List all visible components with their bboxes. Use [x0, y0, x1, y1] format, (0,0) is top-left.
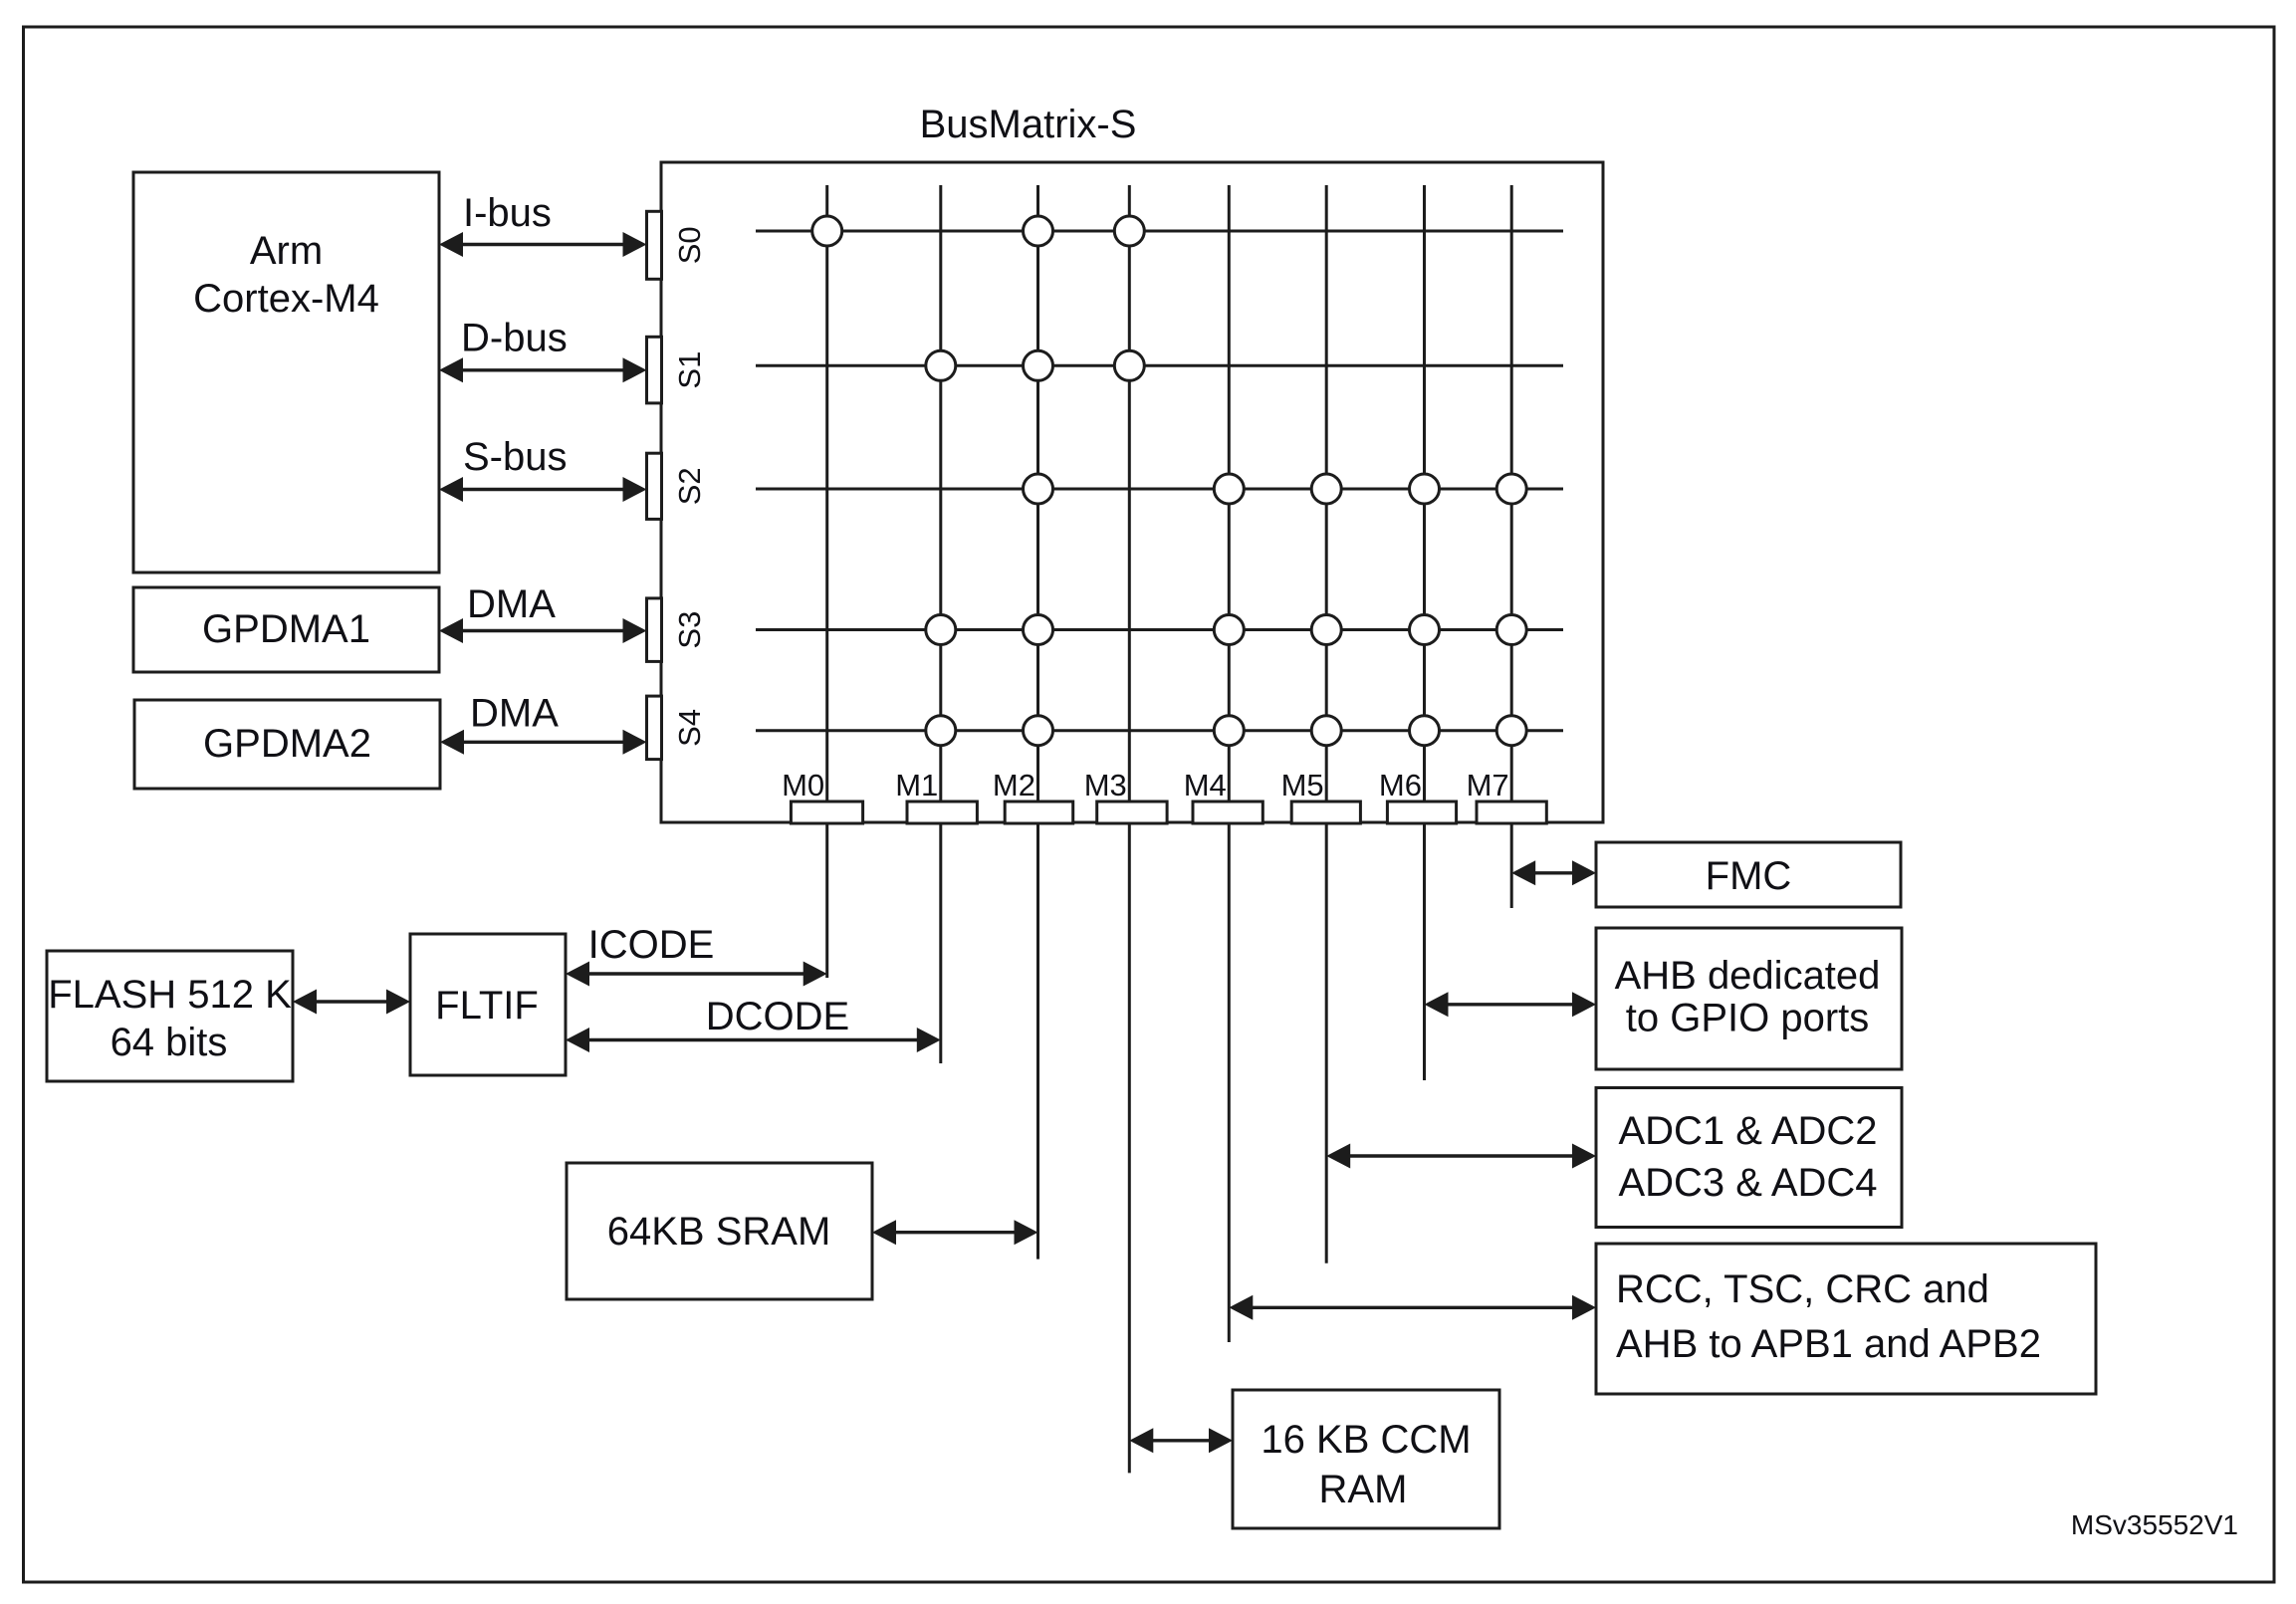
svg-text:AHB to APB1 and APB2: AHB to APB1 and APB2 — [1616, 1322, 2041, 1366]
block FMC — [1596, 842, 1901, 907]
wire FLASH-FLTIF arrow — [311, 1000, 392, 1003]
port stub M6 — [1387, 802, 1456, 823]
svg-text:to GPIO ports: to GPIO ports — [1626, 997, 1870, 1040]
svg-text:S-bus: S-bus — [463, 435, 568, 479]
wire DMA arrow GPDMA2 — [458, 741, 629, 744]
wire ADC arrow — [1344, 1154, 1578, 1157]
svg-text:Arm: Arm — [250, 229, 323, 273]
svg-text:M7: M7 — [1467, 768, 1509, 802]
junction circle S3-M7 — [1496, 615, 1526, 645]
wire AHB-GPIO arrow — [1443, 1003, 1579, 1006]
wire column M4 — [1228, 185, 1231, 1342]
wire SRAM arrow — [890, 1231, 1021, 1234]
svg-text:BusMatrix-S: BusMatrix-S — [920, 103, 1137, 146]
junction circle S3-M1 — [926, 615, 956, 645]
svg-text:M1: M1 — [895, 768, 938, 802]
junction circle S2-M4 — [1214, 474, 1244, 504]
wire row S0 — [756, 230, 1563, 233]
svg-text:AHB dedicated: AHB dedicated — [1615, 954, 1881, 998]
junction circle S2-M5 — [1311, 474, 1341, 504]
svg-text:DCODE: DCODE — [706, 995, 849, 1038]
wire CCM arrow — [1147, 1439, 1215, 1442]
svg-text:ICODE: ICODE — [588, 923, 715, 967]
junction circle S2-M6 — [1410, 474, 1440, 504]
port stub M4 — [1193, 802, 1263, 823]
svg-text:ADC3 & ADC4: ADC3 & ADC4 — [1618, 1161, 1877, 1205]
svg-text:RCC, TSC, CRC and: RCC, TSC, CRC and — [1616, 1267, 1989, 1311]
svg-text:DMA: DMA — [470, 692, 559, 736]
junction circle S4-M1 — [926, 716, 956, 746]
svg-text:M6: M6 — [1379, 768, 1422, 802]
port stub S2 — [647, 453, 662, 519]
junction circle S0-M0 — [812, 216, 842, 246]
svg-text:64KB SRAM: 64KB SRAM — [607, 1210, 831, 1254]
wire FMC arrow — [1529, 871, 1578, 874]
svg-text:FLASH 512 K: FLASH 512 K — [48, 973, 292, 1017]
block FLTIF — [410, 934, 566, 1075]
wire column M0 — [825, 185, 828, 978]
wire column M2 — [1036, 185, 1039, 1260]
junction circle S0-M3 — [1114, 216, 1144, 246]
junction circle S1-M3 — [1114, 350, 1144, 380]
svg-text:S1: S1 — [672, 351, 707, 389]
svg-text:M5: M5 — [1281, 768, 1324, 802]
svg-text:M4: M4 — [1184, 768, 1227, 802]
block GPDMA2 — [134, 700, 440, 789]
svg-text:RAM: RAM — [1319, 1468, 1408, 1511]
wire column M7 — [1510, 185, 1513, 908]
wire DMA arrow GPDMA1 — [457, 629, 629, 632]
junction circle S4-M2 — [1024, 716, 1053, 746]
block 64KB SRAM — [567, 1163, 872, 1299]
junction circle S1-M2 — [1024, 350, 1053, 380]
junction circle S4-M5 — [1311, 716, 1341, 746]
wire RCC arrow — [1247, 1306, 1578, 1309]
wire ICODE arrow — [583, 972, 809, 975]
svg-text:16 KB CCM: 16 KB CCM — [1261, 1418, 1471, 1462]
svg-text:S4: S4 — [672, 709, 707, 747]
port stub M0 — [791, 802, 862, 823]
junction circle S4-M4 — [1214, 716, 1244, 746]
svg-text:S3: S3 — [672, 611, 707, 649]
wire row S3 — [756, 628, 1563, 631]
svg-text:M0: M0 — [782, 768, 824, 802]
svg-text:64 bits: 64 bits — [111, 1021, 228, 1064]
svg-text:DMA: DMA — [467, 582, 556, 626]
wire row S1 — [756, 364, 1563, 367]
port stub M2 — [1005, 802, 1072, 823]
port stub S3 — [647, 598, 662, 662]
block 16 KB CCM RAM — [1233, 1390, 1499, 1528]
wire column M6 — [1423, 185, 1426, 1080]
wire S-bus arrow — [457, 488, 629, 491]
wire D-bus arrow — [457, 368, 629, 371]
svg-text:MSv35552V1: MSv35552V1 — [2071, 1509, 2238, 1540]
junction circle S3-M5 — [1311, 615, 1341, 645]
BusMatrix-S block U1 — [661, 162, 1603, 822]
wire row S2 — [756, 488, 1563, 491]
junction circle S0-M2 — [1024, 216, 1053, 246]
block AHB dedicated to GPIO ports — [1596, 928, 1902, 1069]
svg-text:FMC: FMC — [1706, 854, 1792, 898]
port stub S1 — [647, 337, 662, 403]
port stub S4 — [647, 696, 662, 760]
svg-text:M3: M3 — [1084, 768, 1127, 802]
block FLASH 512 K 64 bits — [47, 951, 293, 1081]
wire column M5 — [1325, 185, 1328, 1263]
block Arm Cortex-M4 — [133, 172, 439, 573]
port stub M5 — [1291, 802, 1360, 823]
port stub S0 — [647, 211, 662, 279]
wire row S4 — [756, 729, 1563, 732]
block GPDMA1 — [133, 587, 439, 672]
port stub M3 — [1097, 802, 1167, 823]
port stub M1 — [907, 802, 977, 823]
block RCC TSC CRC and AHB to APB1 and APB2 — [1596, 1244, 2096, 1394]
port stub M7 — [1477, 802, 1546, 823]
svg-text:M2: M2 — [993, 768, 1035, 802]
junction circle S4-M7 — [1496, 716, 1526, 746]
svg-text:S0: S0 — [672, 226, 707, 264]
junction circle S2-M2 — [1024, 474, 1053, 504]
wire column M3 — [1128, 185, 1131, 1473]
svg-text:D-bus: D-bus — [461, 317, 568, 360]
junction circle S2-M7 — [1496, 474, 1526, 504]
junction circle S3-M2 — [1024, 615, 1053, 645]
block ADC1 ADC2 ADC3 ADC4 — [1596, 1088, 1902, 1228]
wire column M1 — [939, 185, 942, 1063]
junction circle S4-M6 — [1410, 716, 1440, 746]
svg-text:FLTIF: FLTIF — [435, 984, 539, 1028]
junction circle S3-M4 — [1214, 615, 1244, 645]
svg-text:GPDMA1: GPDMA1 — [202, 607, 370, 651]
wire I-bus arrow — [457, 243, 629, 246]
junction circle S3-M6 — [1410, 615, 1440, 645]
svg-text:I-bus: I-bus — [463, 191, 552, 235]
svg-text:ADC1 & ADC2: ADC1 & ADC2 — [1618, 1109, 1877, 1153]
svg-text:Cortex-M4: Cortex-M4 — [193, 277, 379, 321]
wire DCODE arrow — [583, 1038, 923, 1041]
svg-text:GPDMA2: GPDMA2 — [203, 722, 371, 766]
junction circle S1-M1 — [926, 350, 956, 380]
svg-text:S2: S2 — [672, 467, 707, 505]
